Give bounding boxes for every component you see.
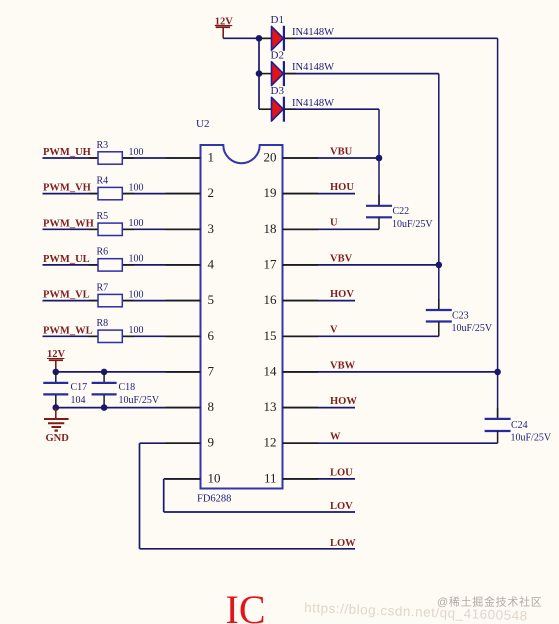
svg-text:12: 12 — [264, 435, 277, 450]
capacitor C17 — [43, 372, 68, 408]
wire pin 16 to HOV — [283, 300, 356, 302]
resistor R5 — [98, 223, 122, 235]
wire 12V to diode anodes — [223, 38, 271, 109]
svg-text:D1: D1 — [271, 14, 284, 26]
svg-text:LOV: LOV — [330, 501, 353, 512]
wire pin 20 to VBU — [283, 157, 380, 159]
node junction GND/C17 — [53, 404, 60, 411]
resistor R8 — [98, 330, 122, 342]
capacitor C22 — [366, 158, 392, 229]
watermark csdn url — [304, 600, 528, 624]
svg-text:100: 100 — [129, 325, 144, 336]
svg-text:4: 4 — [208, 256, 215, 271]
pin 7 stub — [166, 371, 201, 373]
svg-text:HOV: HOV — [330, 289, 354, 300]
svg-text:9: 9 — [208, 435, 215, 450]
wire D2 cathode to vertical drop — [284, 74, 439, 265]
svg-text:17: 17 — [264, 256, 278, 271]
svg-text:6: 6 — [208, 328, 215, 343]
node junction VBV/C23 — [436, 262, 443, 269]
diode D1 — [259, 26, 284, 51]
svg-text:10uF/25V: 10uF/25V — [119, 395, 160, 406]
svg-text:U2: U2 — [196, 118, 209, 130]
node junction VBU/C22 — [376, 155, 383, 162]
node junction D2 anode — [256, 70, 263, 77]
wire 12V rail to pin 7 — [56, 371, 201, 373]
svg-text:10uF/25V: 10uF/25V — [452, 323, 493, 334]
svg-text:C17: C17 — [71, 382, 88, 393]
wire pin 12 to W — [283, 442, 498, 444]
wire PWM_UL to resistor R6 and pin 4 — [43, 264, 201, 266]
wire pin 15 to V — [283, 335, 439, 337]
node junction C18 bottom — [101, 404, 108, 411]
svg-text:R5: R5 — [97, 211, 109, 222]
svg-text:R7: R7 — [97, 282, 109, 293]
svg-text:R8: R8 — [97, 318, 109, 329]
capacitor C18 — [92, 372, 117, 408]
svg-text:1: 1 — [208, 150, 215, 165]
svg-text:14: 14 — [264, 363, 278, 378]
svg-text:16: 16 — [264, 292, 278, 307]
resistor R7 — [98, 294, 122, 306]
svg-text:IN4148W: IN4148W — [292, 27, 334, 38]
svg-text:10uF/25V: 10uF/25V — [392, 219, 433, 230]
svg-text:15: 15 — [264, 328, 277, 343]
svg-text:19: 19 — [264, 185, 277, 200]
svg-text:U: U — [330, 218, 338, 229]
diode D3 — [259, 97, 284, 122]
svg-text:PWM_UH: PWM_UH — [43, 147, 91, 158]
svg-text:V: V — [330, 325, 338, 336]
svg-text:PWM_WH: PWM_WH — [43, 218, 94, 229]
node junction 12V/D1 — [256, 35, 263, 42]
wire pin 10 to LOV — [164, 479, 355, 512]
svg-text:LOW: LOW — [330, 538, 356, 549]
power port 12V (top) — [215, 16, 234, 38]
wire pin 18 to U — [283, 228, 380, 230]
svg-text:100: 100 — [129, 218, 144, 229]
svg-text:2: 2 — [208, 185, 215, 200]
node junction 12V/C17 — [53, 369, 60, 376]
svg-text:HOU: HOU — [330, 182, 354, 193]
wire GND rail to pin 8 — [56, 407, 201, 409]
svg-text:100: 100 — [129, 182, 144, 193]
node junction C18 top — [101, 369, 108, 376]
svg-text:7: 7 — [208, 363, 215, 378]
power port 12V (bottom) — [47, 349, 66, 372]
wire pin 13 to HOW — [283, 407, 356, 409]
svg-text:20: 20 — [264, 150, 277, 165]
svg-text:VBU: VBU — [330, 146, 353, 157]
svg-text:C23: C23 — [452, 310, 469, 321]
wire PWM_UH to resistor R3 and pin 1 — [43, 157, 201, 159]
svg-text:IN4148W: IN4148W — [292, 98, 334, 109]
svg-text:IC: IC — [226, 587, 266, 624]
wire pin 14 to VBW — [283, 371, 498, 373]
wire D3 cathode to vertical drop — [284, 109, 379, 158]
wire pin 19 to HOU — [283, 193, 356, 195]
svg-text:C22: C22 — [393, 206, 410, 217]
svg-text:104: 104 — [71, 395, 86, 406]
wire PWM_VL to resistor R7 and pin 5 — [43, 300, 201, 302]
svg-text:GND: GND — [46, 433, 70, 444]
svg-text:18: 18 — [264, 221, 277, 236]
svg-text:VBV: VBV — [330, 253, 353, 264]
svg-text:LOU: LOU — [330, 467, 353, 478]
wire pin 9 to LOW — [140, 443, 356, 549]
svg-text:PWM_VH: PWM_VH — [43, 183, 91, 194]
wire PWM_WL to resistor R8 and pin 6 — [43, 335, 201, 337]
svg-text:IN4148W: IN4148W — [292, 62, 334, 73]
diode D2 — [259, 61, 284, 86]
svg-text:W: W — [330, 432, 341, 443]
svg-text:100: 100 — [129, 147, 144, 158]
svg-text:100: 100 — [129, 289, 144, 300]
svg-text:PWM_VL: PWM_VL — [43, 290, 90, 301]
wire PWM_WH to resistor R5 and pin 3 — [43, 228, 201, 230]
svg-text:D2: D2 — [271, 49, 284, 61]
ground GND — [44, 408, 69, 431]
IC U2 body (FD6288) — [201, 145, 283, 489]
svg-text:VBW: VBW — [330, 360, 356, 371]
svg-text:R6: R6 — [97, 247, 109, 258]
wire pin 11 to LOU — [283, 478, 356, 480]
pin 8 stub — [166, 407, 201, 409]
wire D1 cathode to vertical drop — [284, 38, 498, 372]
svg-text:R4: R4 — [97, 175, 109, 186]
svg-text:8: 8 — [208, 399, 215, 414]
svg-text:10: 10 — [208, 470, 221, 485]
svg-text:R3: R3 — [97, 140, 109, 151]
svg-text:D3: D3 — [271, 85, 285, 97]
node junction VBW/C24 — [494, 369, 501, 376]
capacitor C23 — [426, 265, 452, 336]
svg-text:10uF/25V: 10uF/25V — [511, 433, 552, 444]
svg-text:C24: C24 — [511, 420, 528, 431]
capacitor C24 — [485, 372, 511, 443]
svg-text:PWM_UL: PWM_UL — [43, 254, 90, 265]
svg-text:11: 11 — [264, 470, 277, 485]
resistor R6 — [98, 259, 122, 271]
svg-text:HOW: HOW — [330, 396, 357, 407]
svg-text:PWM_WL: PWM_WL — [43, 325, 93, 336]
svg-text:3: 3 — [208, 221, 215, 236]
svg-text:C18: C18 — [119, 382, 136, 393]
svg-text:100: 100 — [129, 254, 144, 265]
resistor R4 — [98, 187, 122, 199]
svg-text:13: 13 — [264, 399, 277, 414]
wire pin 17 to VBV — [283, 264, 439, 266]
wire PWM_VH to resistor R4 and pin 2 — [43, 193, 201, 195]
svg-text:5: 5 — [208, 292, 215, 307]
resistor R3 — [98, 152, 122, 164]
svg-text:FD6288: FD6288 — [197, 494, 231, 505]
